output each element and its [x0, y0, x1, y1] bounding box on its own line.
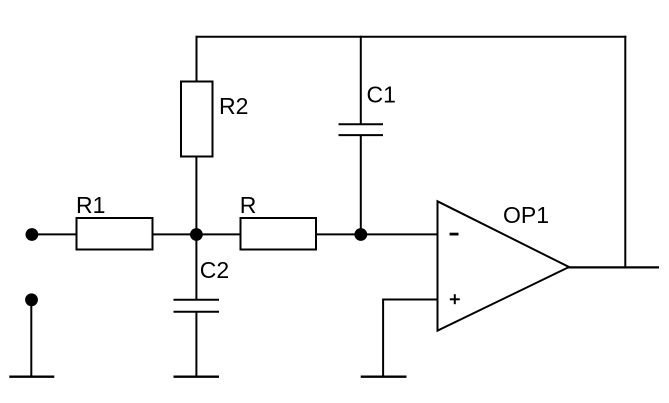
svg-text:R: R: [240, 192, 257, 218]
svg-text:R1: R1: [76, 192, 105, 218]
svg-text:OP1: OP1: [503, 202, 549, 228]
svg-text:C2: C2: [200, 257, 229, 283]
svg-text:R2: R2: [219, 93, 248, 119]
svg-text:C1: C1: [367, 82, 396, 108]
